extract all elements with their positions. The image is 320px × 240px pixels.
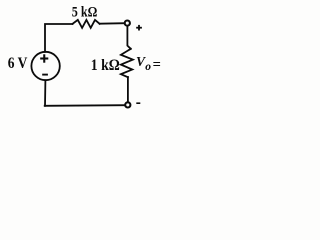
- svg-text:1 kΩ: 1 kΩ: [91, 57, 120, 74]
- wire right branch lower (resistor to terminal): [127, 77, 129, 102]
- label 1 kOhm: [91, 57, 120, 74]
- wire right branch upper (terminal to resistor): [127, 26, 130, 49]
- terminal node bottom (open circle): [125, 102, 130, 107]
- svg-text:o: o: [145, 61, 151, 73]
- voltage source V1 circle: [31, 52, 59, 80]
- svg-text:6 V: 6 V: [8, 55, 28, 72]
- resistor R1 5k zigzag: [73, 20, 100, 28]
- label 5 kOhm: [72, 3, 98, 19]
- label 6 V: [8, 55, 28, 72]
- polarity minus label (bottom right): [136, 102, 140, 104]
- svg-text:5 kΩ: 5 kΩ: [72, 3, 98, 19]
- polarity plus label (top right): [136, 25, 142, 31]
- svg-text:=: =: [153, 57, 161, 73]
- wire top-left lead (corner to resistor): [45, 24, 73, 52]
- voltage source minus sign: [42, 74, 48, 76]
- wire bottom: [45, 104, 125, 107]
- terminal node top (open circle): [125, 21, 130, 26]
- voltage source plus sign: [40, 54, 48, 62]
- wire top-right lead (resistor to terminal): [100, 22, 125, 25]
- resistor R2 1k zigzag: [121, 49, 133, 77]
- wire left vertical below source: [44, 80, 46, 106]
